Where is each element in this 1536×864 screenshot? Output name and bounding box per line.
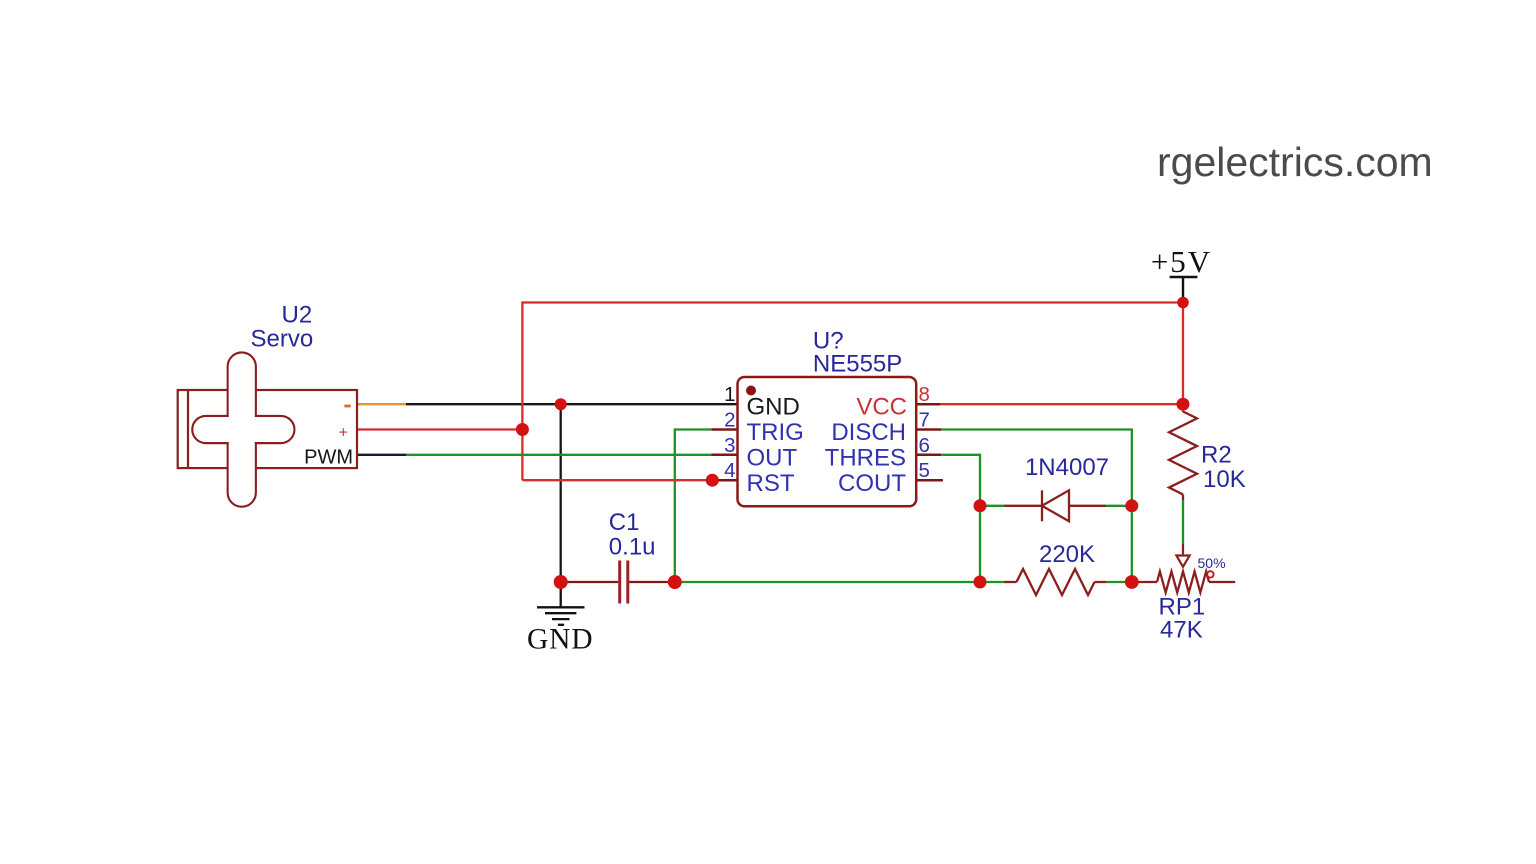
svg-text:+5V: +5V	[1151, 244, 1212, 279]
junction diode left (980,505.8)	[974, 499, 987, 512]
svg-text:0.1u: 0.1u	[609, 534, 656, 561]
wire green 220K left lead entry	[980, 581, 1006, 583]
svg-text:RST: RST	[747, 470, 795, 497]
svg-text:Servo: Servo	[251, 326, 314, 353]
svg-text:TRIG: TRIG	[747, 419, 804, 446]
IC U? NE555P body	[738, 377, 917, 506]
wire green diode right to junction	[1106, 505, 1132, 507]
svg-text:4: 4	[724, 459, 735, 482]
wire servo PWM green to pin 3 OUT	[406, 454, 714, 456]
svg-text:10K: 10K	[1203, 466, 1246, 493]
junction ground node (560.7,582)	[554, 575, 568, 589]
svg-text:GND: GND	[527, 624, 593, 656]
wire green vertical pin6 THRES down to diode left	[941, 455, 980, 582]
junction bottom net at C1 right (674.8,582)	[668, 575, 682, 589]
junction bottom net at RP1 (1131.8,582)	[1125, 575, 1139, 589]
svg-text:8: 8	[919, 383, 930, 406]
svg-text:R2: R2	[1201, 442, 1232, 469]
svg-text:NE555P: NE555P	[813, 350, 902, 377]
svg-text:7: 7	[919, 409, 930, 432]
wire green TRIG loop from pin 2 down to bottom net	[675, 430, 714, 583]
svg-text:2: 2	[724, 409, 735, 432]
wire servo minus orange segment	[357, 403, 406, 405]
svg-text:OUT: OUT	[747, 444, 798, 471]
capacitor C1 plates	[618, 561, 621, 604]
svg-text:COUT: COUT	[838, 470, 906, 497]
wire green 220K right to junction	[1107, 581, 1132, 583]
svg-text:47K: 47K	[1160, 617, 1203, 644]
svg-text:1N4007: 1N4007	[1025, 454, 1109, 481]
wire servo PWM navy segment	[357, 454, 406, 456]
svg-text:U2: U2	[282, 302, 313, 329]
IC U? NE555P pin stubs	[712, 404, 943, 480]
wire green vertical pin7 DISCH down to bottom net	[941, 430, 1132, 583]
svg-text:VCC: VCC	[856, 394, 907, 421]
junction servo plus (522.4,429.5)	[516, 423, 529, 436]
junction bottom net at 220K left (980,582)	[974, 576, 987, 589]
wire red pin8 VCC to +5V rail	[939, 403, 1183, 405]
wire servo minus black to junction and pin 1 GND	[406, 403, 738, 405]
diode 1N4007	[1005, 490, 1106, 521]
svg-text:3: 3	[724, 434, 735, 457]
svg-text:C1: C1	[609, 509, 640, 536]
svg-text:+: +	[339, 425, 348, 442]
connector U2 servo body	[178, 390, 357, 468]
junction +5V (1183,302.5)	[1177, 297, 1189, 309]
junction VCC rail (1183,404.2)	[1177, 398, 1190, 411]
wire red vertical +5V down to R2	[1182, 303, 1184, 413]
connector U2 inner left line	[187, 390, 189, 468]
servo horn cross	[192, 353, 294, 507]
svg-text:GND: GND	[747, 394, 800, 421]
wire red to pin 4 RST	[522, 479, 712, 481]
svg-text:5: 5	[919, 459, 930, 482]
wire green diode left lead entry	[980, 505, 1006, 507]
ground symbol GND	[537, 582, 585, 625]
svg-text:THRES: THRES	[825, 444, 906, 471]
power symbol +5V	[1170, 277, 1198, 298]
wire servo plus red	[357, 428, 522, 430]
resistor 220K	[1005, 569, 1107, 595]
junction pin 4 RST (712.3,480.2)	[706, 474, 719, 487]
junction diode right (1131.8,505.8)	[1125, 499, 1138, 512]
servo pin label minus	[344, 405, 350, 408]
potentiometer wiper circle	[1207, 571, 1213, 577]
potentiometer RP1 body	[1132, 572, 1235, 593]
wire green bottom net C1 to 220K	[675, 581, 980, 583]
IC pin 1 orientation dot	[746, 386, 756, 396]
wire black vertical down to ground node	[560, 404, 562, 582]
svg-text:rgelectrics.com: rgelectrics.com	[1157, 139, 1433, 185]
capacitor C1 leads	[561, 581, 619, 583]
wire red vertical riser x=522.4	[522, 303, 1183, 481]
junction black wire at (560.7,404.2)	[555, 398, 567, 410]
svg-text:PWM: PWM	[304, 447, 353, 469]
svg-text:50%: 50%	[1198, 555, 1226, 571]
resistor R2	[1169, 412, 1197, 502]
potentiometer RP1 wiper arrow	[1176, 544, 1189, 567]
wire green R2 to RP1 wiper	[1182, 500, 1184, 545]
svg-text:6: 6	[919, 434, 930, 457]
svg-text:220K: 220K	[1039, 541, 1095, 568]
svg-text:DISCH: DISCH	[831, 419, 906, 446]
svg-text:1: 1	[724, 383, 735, 406]
